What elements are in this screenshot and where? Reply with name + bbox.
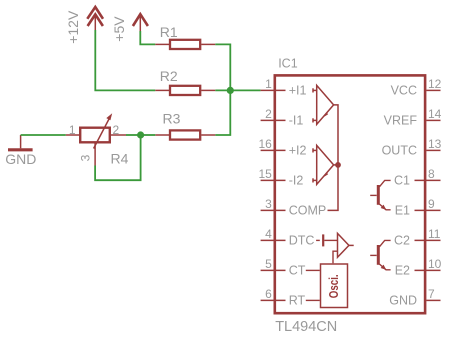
pin 6 RT [261, 287, 306, 308]
svg-text:Osci.: Osci. [328, 274, 341, 298]
svg-text:12: 12 [428, 77, 442, 91]
pin 11 C2 [394, 227, 441, 248]
wire RT to oscillator [306, 299, 320, 301]
wire R4 pin2 to node B [126, 134, 141, 136]
pin 2 -I1 [261, 107, 304, 128]
op-amp IC1 body [275, 57, 425, 336]
transistor Q1 [370, 180, 390, 210]
wire node A down to R3 [215, 90, 230, 135]
svg-text:7: 7 [428, 287, 435, 301]
svg-text:E2: E2 [395, 264, 410, 278]
label +5V [111, 16, 127, 42]
svg-text:3: 3 [265, 197, 272, 211]
svg-text:IC1: IC1 [278, 57, 298, 71]
svg-text:GND: GND [389, 294, 417, 308]
wire R3 to node B [141, 134, 156, 136]
potentiometer R4 [66, 113, 129, 166]
oscillator block Osci. [321, 264, 348, 308]
svg-text:-I1: -I1 [289, 114, 304, 128]
svg-text:OUTC: OUTC [382, 144, 417, 158]
wire GND to R4 pin 1 [21, 134, 66, 136]
svg-text:+5V: +5V [111, 16, 127, 42]
svg-text:DTC: DTC [289, 234, 315, 248]
svg-text:C1: C1 [394, 174, 410, 188]
svg-text:1: 1 [265, 77, 272, 91]
wire amp2 output [334, 164, 338, 166]
svg-text:9: 9 [428, 197, 435, 211]
wire oscillator to comparator [333, 251, 338, 263]
svg-text:RT: RT [289, 294, 306, 308]
svg-text:6: 6 [265, 287, 272, 301]
svg-text:VCC: VCC [391, 84, 417, 98]
wire +12V to R2 row [95, 30, 155, 90]
svg-text:R4: R4 [111, 150, 129, 166]
svg-text:5: 5 [265, 257, 272, 271]
resistor R1 [155, 24, 215, 49]
svg-text:GND: GND [5, 151, 36, 167]
svg-text:E1: E1 [395, 204, 410, 218]
label +12V [65, 10, 81, 44]
svg-text:CT: CT [289, 264, 306, 278]
svg-text:4: 4 [265, 227, 272, 241]
op-amp U1a error amp 1 [313, 85, 334, 124]
svg-text:TL494CN: TL494CN [275, 319, 337, 335]
pin 10 E2 [395, 257, 442, 278]
wire R1 to node A [215, 44, 230, 90]
svg-text:13: 13 [428, 137, 442, 151]
svg-text:+12V: +12V [65, 10, 81, 44]
svg-text:2: 2 [113, 123, 120, 137]
supply +12V symbol [87, 7, 103, 30]
comparator U1c [338, 233, 354, 257]
svg-text:15: 15 [258, 167, 272, 181]
resistor R3 [155, 110, 215, 139]
wire amp1 output [328, 105, 339, 210]
svg-text:R1: R1 [160, 24, 178, 40]
pin 14 VREF [384, 107, 442, 128]
svg-text:3: 3 [79, 154, 93, 161]
wire R2 to IC pin 1 [215, 89, 260, 91]
pin 16 +I2 [258, 137, 306, 158]
svg-text:2: 2 [265, 107, 272, 121]
dead-time comparator input cap [316, 234, 337, 246]
wire CT to oscillator [306, 269, 320, 271]
svg-text:C2: C2 [394, 234, 410, 248]
wire +5V to R1 [140, 31, 155, 44]
svg-text:-I2: -I2 [289, 174, 304, 188]
transistor Q2 [370, 240, 390, 270]
pin 7 GND [389, 287, 440, 308]
svg-text:+I2: +I2 [289, 144, 307, 158]
pin 4 DTC [261, 227, 315, 248]
svg-text:10: 10 [428, 257, 442, 271]
node amp output junction [335, 162, 341, 168]
svg-text:+I1: +I1 [289, 84, 307, 98]
svg-text:COMP: COMP [289, 204, 327, 218]
op-amp U1b error amp 2 [313, 145, 334, 184]
pin 8 C1 [394, 167, 440, 188]
svg-text:8: 8 [428, 167, 435, 181]
supply +5V symbol [133, 14, 148, 31]
svg-text:16: 16 [258, 137, 272, 151]
node B junction [137, 131, 144, 138]
ground [5, 135, 36, 167]
node A junction [227, 87, 234, 94]
pin 13 OUTC [382, 137, 442, 158]
resistor R2 [155, 68, 215, 95]
svg-text:1: 1 [69, 123, 76, 137]
pin 12 VCC [391, 77, 442, 98]
svg-text:R2: R2 [160, 68, 178, 84]
svg-text:14: 14 [428, 107, 442, 121]
wire R4 wiper loop to node B [95, 135, 141, 180]
svg-text:11: 11 [428, 227, 441, 241]
svg-text:VREF: VREF [384, 114, 418, 128]
svg-text:R3: R3 [163, 110, 181, 126]
pin 9 E1 [395, 197, 441, 218]
pin 1 +I1 [261, 77, 307, 98]
pin 5 CT [261, 257, 306, 278]
pin 15 -I2 [258, 167, 303, 188]
pin 3 COMP [261, 197, 327, 218]
